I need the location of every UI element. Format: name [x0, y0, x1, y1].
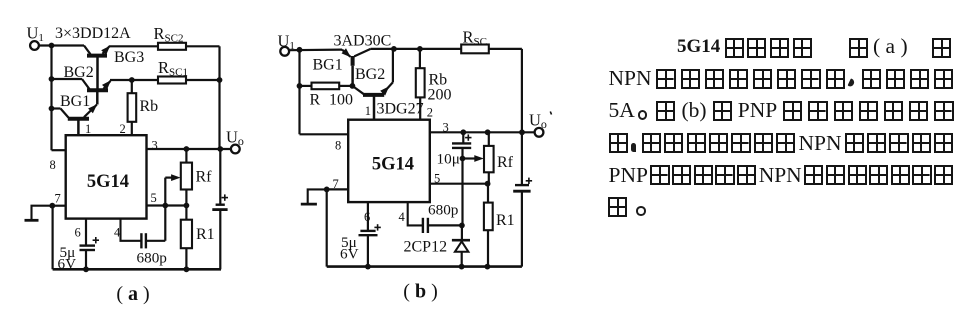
svg-text:5G14: 5G14 — [87, 172, 129, 192]
svg-text:Rb: Rb — [140, 98, 159, 115]
svg-text:3: 3 — [152, 138, 158, 152]
svg-text:( a ): ( a ) — [116, 283, 149, 305]
svg-text:6V: 6V — [58, 256, 77, 273]
svg-text:( b ): ( b ) — [403, 281, 437, 303]
svg-text:R: R — [310, 92, 321, 109]
svg-text:RSC1: RSC1 — [158, 58, 188, 79]
svg-text:5G14: 5G14 — [372, 155, 414, 175]
svg-text:100: 100 — [329, 92, 353, 109]
svg-text:Rf: Rf — [497, 154, 514, 171]
svg-text:1: 1 — [85, 122, 91, 136]
svg-text:BG1: BG1 — [60, 93, 90, 110]
svg-text:R1: R1 — [196, 226, 215, 243]
svg-text:6: 6 — [75, 226, 81, 240]
svg-text:6V: 6V — [340, 246, 359, 263]
svg-text:BG1: BG1 — [313, 57, 343, 74]
svg-text:BG2: BG2 — [355, 66, 385, 83]
svg-text:Rf: Rf — [196, 169, 213, 186]
svg-text:10μ: 10μ — [437, 151, 460, 168]
svg-text:680p: 680p — [137, 250, 167, 267]
svg-text:8: 8 — [50, 158, 56, 172]
svg-text:2: 2 — [120, 122, 126, 136]
svg-text:8: 8 — [335, 139, 341, 153]
svg-text:Uo: Uo — [529, 111, 547, 132]
svg-text:2CP12: 2CP12 — [404, 239, 448, 256]
svg-text:3DG27: 3DG27 — [377, 101, 424, 118]
svg-text:Uo: Uo — [226, 128, 244, 149]
svg-text:BG2: BG2 — [64, 64, 94, 81]
svg-text:1: 1 — [365, 104, 371, 118]
svg-text:200: 200 — [428, 87, 452, 104]
svg-text:2: 2 — [427, 106, 433, 120]
